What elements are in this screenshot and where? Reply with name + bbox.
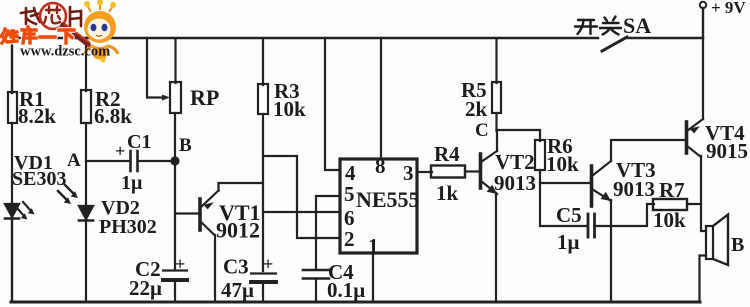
diode VD2 [58, 185, 93, 221]
svg-text:10k: 10k [653, 208, 686, 232]
wire top rail left segment [11, 37, 598, 39]
wire R5 to node C [495, 113, 497, 131]
wire R5 rail from top [495, 38, 497, 83]
node B junction dot [170, 156, 179, 165]
wire pin4 from top rail [325, 38, 340, 170]
wire VT4 collector to speaker [701, 156, 706, 231]
维 [1, 29, 5, 36]
svg-text:9013: 9013 [494, 171, 536, 195]
wire pin5 link to C4 [316, 196, 340, 269]
svg-text:0.1μ: 0.1μ [327, 278, 365, 302]
wire speaker to ground [700, 256, 707, 303]
wire R2 to node A [85, 123, 87, 206]
resistor R4 [431, 166, 465, 178]
svg-text:C5: C5 [556, 203, 582, 227]
ground bottom rail [11, 301, 700, 304]
svg-text:1μ: 1μ [557, 230, 580, 254]
capacitor C5 [588, 214, 595, 237]
wire C3 to ground [262, 283, 264, 302]
svg-text:+: + [263, 254, 273, 274]
库 [28, 27, 30, 30]
svg-text:RP: RP [190, 85, 219, 110]
svg-text:47μ: 47μ [221, 278, 254, 302]
svg-text:8.2k: 8.2k [18, 104, 56, 128]
下 [59, 28, 74, 31]
wire RP wiper from top rail [147, 38, 166, 98]
svg-text:1: 1 [368, 234, 379, 258]
wire pin3 to R4 [417, 171, 432, 173]
wire R4 to VT2 base [465, 170, 479, 172]
capacitor C4 [303, 270, 329, 279]
capacitor C2 [163, 271, 187, 281]
transistor VT4 [687, 119, 704, 157]
svg-text:C: C [475, 120, 489, 141]
wire VT4 emitter to +9V rail [702, 38, 704, 119]
resistor R7 [653, 199, 687, 210]
op-amp U1 NE555 box [340, 159, 417, 253]
wire VT1 base stub [175, 212, 198, 214]
svg-text:A: A [67, 150, 81, 171]
wire top rail right segment [625, 37, 703, 39]
resistor R1 [8, 92, 17, 123]
transistor VT3 [592, 161, 612, 206]
wire VT1 emitter to R3 rail [219, 183, 264, 191]
wire C1 to node B [139, 160, 175, 162]
wire node A to C1 [86, 160, 129, 162]
wire node B down to C2 [174, 161, 176, 270]
wire C2 to ground [174, 281, 176, 302]
wire VD2 to ground [85, 221, 87, 302]
svg-text:SE303: SE303 [12, 168, 66, 190]
magnifier handle / pencil [63, 25, 88, 44]
wire pin8 from top rail [380, 38, 382, 159]
wire RP to node B [174, 113, 176, 161]
wire pin2 link [263, 156, 340, 238]
svg-text:+ 9V: + 9V [711, 0, 746, 17]
svg-text:22μ: 22μ [129, 276, 162, 300]
svg-text:R4: R4 [434, 142, 460, 166]
label switch SA (Chinese 开关 + SA) [575, 17, 621, 35]
wire VT3 emitter to ground [610, 200, 612, 302]
svg-text:+: + [115, 141, 125, 161]
svg-text:2: 2 [344, 227, 355, 251]
svg-text:C1: C1 [127, 131, 151, 153]
wire VD1 to ground [11, 219, 13, 302]
resistor R5 [492, 82, 501, 113]
node +9V terminal [700, 2, 706, 8]
resistor R6 [535, 140, 545, 170]
svg-text:SA: SA [623, 13, 651, 38]
wire R6 to VT3 base [540, 170, 591, 183]
svg-text:9015: 9015 [706, 139, 748, 163]
capacitor C1 [131, 151, 138, 171]
svg-text:2k: 2k [465, 97, 488, 121]
wire R3 rail upper [262, 38, 264, 85]
wire VT2 collector to node C [496, 130, 498, 151]
svg-text:6.8k: 6.8k [94, 104, 132, 128]
svg-text:9013: 9013 [613, 177, 655, 201]
wire left rail upper [11, 38, 13, 93]
text 找芯片 stylized [21, 7, 81, 26]
wire R1 to VD1 [11, 123, 13, 204]
wire pin1 to ground [372, 253, 374, 302]
svg-text:8: 8 [375, 154, 386, 178]
wire +9V vertical [702, 8, 704, 38]
text 维库一下 red [1, 29, 74, 43]
svg-text:9012: 9012 [216, 218, 260, 243]
magnifier circle with 芯 [40, 3, 66, 29]
wire C5 branch [540, 183, 586, 226]
capacitor C3 [251, 274, 276, 283]
watermark logo dzsc [1, 0, 118, 63]
svg-text:10k: 10k [273, 97, 306, 121]
resistor R2 [81, 90, 91, 123]
一 [40, 35, 55, 38]
svg-text:R7: R7 [659, 178, 685, 202]
svg-text:1k: 1k [436, 181, 459, 205]
wire VT3 collector to VT4 base [611, 140, 685, 161]
wire R7 to VT4 collector rail [687, 203, 701, 205]
transistor VT2 [481, 151, 498, 194]
transistor VT1 [200, 191, 219, 236]
svg-text:1μ: 1μ [121, 172, 143, 194]
potentiometer RP [170, 82, 181, 113]
svg-text:PH302: PH302 [99, 216, 157, 238]
switch SA blade [602, 37, 627, 51]
wire C5 to R7 [596, 204, 654, 226]
svg-text:+: + [175, 254, 185, 274]
wire node C to R6 [497, 130, 541, 141]
wire VT2 emitter to ground [495, 193, 497, 302]
wire R3 down to C3 [262, 114, 264, 271]
wire RP top [174, 38, 176, 83]
wire pin6 link [263, 211, 340, 213]
svg-text:B: B [179, 135, 192, 156]
svg-text:NE555: NE555 [356, 187, 420, 212]
svg-text:5: 5 [344, 182, 355, 206]
resistor R3 [258, 84, 268, 114]
speaker B [706, 215, 728, 266]
mascot [84, 0, 118, 63]
diode VD1 [5, 202, 35, 220]
svg-text:10k: 10k [546, 152, 579, 176]
svg-text:3: 3 [403, 161, 414, 185]
svg-text:B: B [731, 234, 744, 256]
svg-text:www.dzsc.com: www.dzsc.com [20, 44, 110, 60]
wire C4 to ground [315, 279, 317, 302]
svg-text:C3: C3 [223, 255, 249, 279]
wire VT1 collector to ground [214, 235, 216, 302]
wire R2 rail upper [85, 38, 87, 91]
